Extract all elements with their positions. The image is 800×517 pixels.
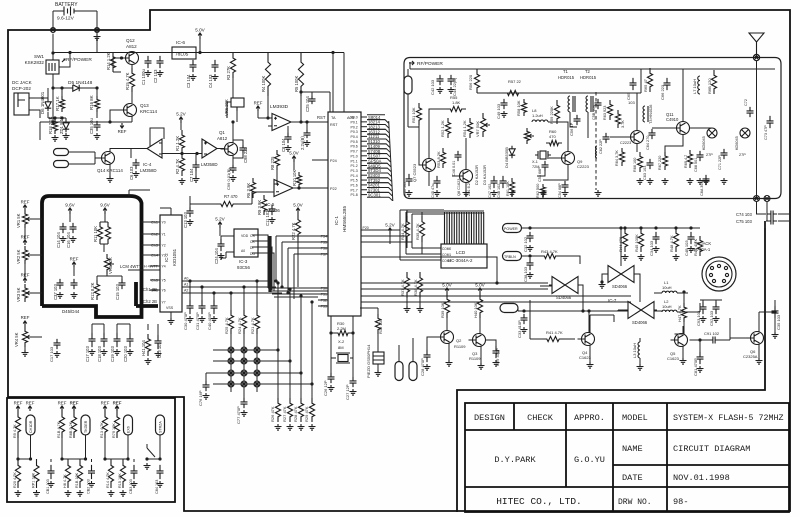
- aux component H8 4.7K: [65, 459, 70, 488]
- resistor R59 220K: [554, 100, 559, 124]
- svg-text:T3 HN4026: T3 HN4026: [649, 105, 653, 124]
- transistor Q14 KRC114: [102, 152, 115, 165]
- svg-text:D6 1N4001: D6 1N4001: [40, 91, 45, 114]
- rail corner to IC: [333, 53, 344, 113]
- bus IC-3 to IC-1 (thick bundle): [252, 235, 274, 291]
- aux group CH1DR bus wire: [18, 458, 31, 460]
- svg-text:P0.4: P0.4: [351, 135, 358, 139]
- opamp IC-4B LM358D (right-pointing): [202, 139, 217, 158]
- title block separation step: [457, 221, 765, 512]
- ground C42: [437, 87, 444, 93]
- svg-text:R20 4.7K: R20 4.7K: [13, 472, 17, 488]
- RF box bottom junction A: [754, 196, 760, 202]
- svg-text:KRC114: KRC114: [140, 109, 157, 114]
- potentiometer VR2 5K: [23, 240, 27, 245]
- keypad riser R28 47K: [300, 296, 302, 398]
- ref arrow VR6: [256, 106, 260, 111]
- svg-text:VR4 5K: VR4 5K: [14, 332, 19, 347]
- svg-text:C35 103: C35 103: [776, 314, 781, 330]
- capacitor C48 102: [500, 176, 507, 188]
- resistor H41 104: [145, 334, 150, 356]
- svg-text:C76 16P: C76 16P: [198, 390, 203, 406]
- svg-text:C4910: C4910: [666, 117, 679, 122]
- ground C38: [527, 272, 534, 278]
- resistor R58 10K: [521, 99, 526, 116]
- resistor R25 4.7K: [228, 310, 233, 334]
- thick wire Ch1-2B: [136, 282, 158, 306]
- antenna feed wire: [756, 61, 758, 199]
- ground C4B: [688, 246, 695, 252]
- svg-text:CH1DR: CH1DR: [29, 420, 33, 433]
- svg-text:T1: T1: [563, 69, 569, 74]
- ground mid: [71, 292, 78, 298]
- svg-text:LM358D: LM358D: [140, 168, 157, 173]
- svg-text:KSK2832: KSK2832: [25, 60, 45, 65]
- capacitor C99 0.01(B): [230, 165, 237, 173]
- potentiometer VR5 20K: [104, 254, 109, 274]
- analog switch SD4066 B: [608, 266, 634, 283]
- resistor R66 100: [637, 152, 642, 172]
- capacitor C27 12P: [350, 377, 357, 387]
- svg-text:C19 103: C19 103: [110, 345, 115, 362]
- svg-text:C98 223: C98 223: [243, 146, 248, 163]
- svg-text:C26 12P: C26 12P: [323, 380, 328, 396]
- 9.6V arrow in shield block A: [68, 208, 72, 214]
- capacitor C98 223: [240, 145, 247, 153]
- svg-text:KID1051: KID1051: [172, 248, 177, 266]
- svg-text:R24 4.7K: R24 4.7K: [237, 317, 242, 334]
- svg-text:EX6: EX6: [127, 426, 131, 433]
- capacitor C66 223: [664, 78, 671, 90]
- svg-text:R8B 5.2K: R8B 5.2K: [69, 421, 73, 438]
- RF second rail: [477, 92, 641, 94]
- junction connector J2: [95, 28, 100, 33]
- ground C37: [57, 292, 64, 298]
- ground C33: [521, 327, 528, 333]
- capacitor C42 103: [437, 75, 444, 85]
- capacitor C40 450P: [211, 300, 218, 314]
- svg-text:A0: A0: [241, 249, 245, 253]
- resistor R34 4.7K: [404, 216, 409, 242]
- svg-text:IC-5: IC-5: [266, 202, 275, 207]
- resistor R67 220: [662, 152, 667, 170]
- resistor R48 4.7K: [673, 228, 678, 252]
- capacitor C77 470P: [243, 392, 245, 399]
- svg-text:SD4066: SD4066: [612, 284, 628, 289]
- svg-text:P0.7: P0.7: [351, 150, 358, 154]
- svg-text:R41 4.7K: R41 4.7K: [546, 330, 563, 335]
- capacitor C92 103: [713, 302, 720, 314]
- svg-text:C33 410P: C33 410P: [517, 320, 522, 338]
- capacitor C64 270: [649, 129, 656, 139]
- potentiometer VR6 20K: [231, 98, 244, 107]
- svg-text:C30 470P: C30 470P: [183, 312, 188, 330]
- svg-text:R51 10K: R51 10K: [411, 107, 416, 123]
- svg-text:D4 BB535B: D4 BB535B: [504, 147, 509, 168]
- keypad junction: [241, 381, 247, 387]
- svg-text:C81 470P: C81 470P: [693, 358, 698, 376]
- RF box bottom junction B: [764, 196, 770, 202]
- LCD module HC-3044A-2: [441, 244, 487, 268]
- capacitor C49 103: [501, 99, 508, 109]
- IC-1 right pins to LCD COM: [361, 210, 412, 242]
- svg-text:A812: A812: [217, 136, 228, 141]
- keypad junction: [254, 358, 260, 364]
- svg-text:R37 4.7K: R37 4.7K: [400, 279, 405, 296]
- svg-text:5.2V: 5.2V: [385, 223, 395, 228]
- ground H41: [145, 358, 152, 364]
- svg-text:CIRCUIT DIAGRAM: CIRCUIT DIAGRAM: [673, 444, 750, 454]
- svg-text:R6B 120: R6B 120: [707, 78, 712, 94]
- svg-text:R4 100K: R4 100K: [261, 75, 266, 92]
- ground under R2: [179, 178, 186, 184]
- zener ZD1 5.1V: [63, 120, 69, 129]
- wire TRBLN right: [522, 255, 541, 257]
- resistor R16 8K: [94, 96, 99, 112]
- svg-text:R1109: R1109: [454, 344, 466, 349]
- svg-text:Y4: Y4: [162, 265, 166, 269]
- svg-text:98-: 98-: [673, 497, 688, 507]
- svg-text:Ch2 2B: Ch2 2B: [143, 299, 157, 304]
- svg-text:C1 100u: C1 100u: [141, 68, 146, 85]
- svg-text:DRW NO.: DRW NO.: [618, 498, 652, 507]
- svg-text:R13 4.7K: R13 4.7K: [100, 422, 104, 438]
- wire dc jack to diode: [34, 98, 48, 118]
- svg-text:SD4066: SD4066: [556, 295, 572, 300]
- inductor L3 10uH: [638, 342, 640, 358]
- svg-text:P1.0: P1.0: [351, 154, 358, 158]
- aux resistor R13 4.7K: [103, 406, 107, 411]
- svg-text:C25 104: C25 104: [305, 95, 310, 112]
- svg-text:C64 270: C64 270: [646, 136, 650, 150]
- svg-text:R66 100: R66 100: [633, 158, 637, 172]
- ground Q3: [478, 363, 485, 369]
- svg-text:R57 22: R57 22: [508, 79, 522, 84]
- IC-1 right long bus wires: [361, 257, 631, 302]
- svg-text:REF: REF: [70, 401, 79, 406]
- connector oval POWER: [503, 224, 522, 233]
- svg-text:C62 22P: C62 22P: [599, 139, 603, 154]
- shield block bottom step: [42, 300, 142, 317]
- svg-text:C2223: C2223: [577, 164, 590, 169]
- svg-text:C6 103: C6 103: [129, 166, 134, 180]
- ground under C4: [212, 74, 219, 80]
- ground C17: [89, 349, 96, 355]
- title block grid lines: [465, 403, 789, 512]
- svg-text:C2325A: C2325A: [743, 354, 758, 359]
- aux group EX6 bus wire: [105, 458, 128, 460]
- svg-text:P1.1: P1.1: [351, 159, 358, 163]
- capacitor C15 103: [119, 279, 126, 289]
- RF/POWER box outline: [404, 58, 781, 199]
- wire switch to main rail: [52, 74, 54, 122]
- trimmer KD6045 B: [740, 128, 750, 138]
- svg-text:BATTERY: BATTERY: [55, 2, 78, 8]
- ground C29: [493, 360, 500, 366]
- svg-text:TA: TA: [331, 116, 336, 120]
- capacitor C20 103: [127, 333, 134, 347]
- wire POWER to parts: [522, 227, 701, 229]
- svg-text:R64 3.7K: R64 3.7K: [615, 150, 619, 166]
- ground under C6: [133, 171, 140, 177]
- resistor R24 4.7K: [241, 310, 246, 334]
- capacitor C4B 103: [688, 232, 695, 244]
- svg-text:NAME: NAME: [622, 444, 643, 454]
- svg-text:R11 10K: R11 10K: [93, 226, 98, 242]
- aux connector oval EX6: [124, 415, 133, 435]
- potentiometer VR4 5K: [22, 327, 27, 347]
- svg-text:R14 1.2K: R14 1.2K: [106, 52, 111, 70]
- svg-text:R15 16K: R15 16K: [118, 473, 122, 488]
- ground under Q14: [107, 176, 114, 182]
- capacitor C41 102: [406, 174, 413, 186]
- svg-text:P37: P37: [321, 253, 327, 257]
- svg-text:1.2uH: 1.2uH: [532, 113, 543, 118]
- svg-text:5.0V: 5.0V: [293, 203, 303, 208]
- capacitor C28 470P: [424, 350, 431, 362]
- svg-text:5.0V: 5.0V: [475, 283, 485, 288]
- ground Q4: [587, 362, 594, 368]
- ground C76: [203, 393, 210, 399]
- ground C44: [448, 87, 455, 93]
- svg-text:IC-7: IC-7: [608, 298, 617, 303]
- svg-text:IC-3: IC-3: [239, 259, 248, 264]
- svg-text:A2: A2: [184, 289, 188, 293]
- svg-text:P0.0: P0.0: [351, 116, 358, 120]
- svg-text:9C301: 9C301: [368, 192, 381, 197]
- capacitor C33 410P: [521, 314, 528, 324]
- connector oval E (antenna in): [404, 76, 412, 94]
- svg-text:P1.5: P1.5: [351, 179, 358, 183]
- 5.2V arrow near IC-3: [218, 222, 222, 228]
- svg-text:C53 68P: C53 68P: [538, 167, 542, 182]
- svg-text:R79 10K: R79 10K: [112, 423, 116, 438]
- resistor R19 100: [375, 314, 380, 334]
- svg-text:LM393D: LM393D: [270, 104, 289, 110]
- svg-text:5.0V: 5.0V: [195, 28, 205, 33]
- svg-text:R15 4.7K: R15 4.7K: [125, 72, 130, 90]
- svg-text:R21 4.7K: R21 4.7K: [250, 317, 255, 334]
- ground C30: [187, 316, 194, 322]
- potentiometer VR3 5K: [23, 278, 27, 283]
- potentiometer VR8 B6K: [524, 128, 529, 144]
- IC-4A feedback loop: [131, 128, 164, 158]
- ground C20: [127, 349, 134, 355]
- svg-text:R67 220: R67 220: [658, 156, 662, 170]
- 9.6V arrow in shield block B: [103, 208, 107, 214]
- svg-text:CB1 103: CB1 103: [46, 479, 50, 494]
- svg-text:REF: REF: [26, 401, 35, 406]
- svg-text:5.2V: 5.2V: [215, 217, 225, 222]
- wires bus to IC-1 P34 group: [276, 236, 328, 299]
- antenna: [749, 33, 764, 58]
- ground VR4: [22, 350, 29, 356]
- svg-text:SW1: SW1: [34, 54, 44, 59]
- resistor R37 4.7K: [404, 272, 409, 298]
- svg-text:Q13: Q13: [140, 103, 149, 108]
- capacitor C5B 103: [595, 99, 602, 109]
- transistor Q4 C1623: [582, 333, 595, 346]
- transistor Q5 C1623: [675, 334, 688, 347]
- wires under IC-1: [331, 308, 378, 378]
- svg-text:P0.2: P0.2: [351, 125, 358, 129]
- svg-text:STRZA: STRZA: [159, 421, 163, 433]
- capacitor C91 102: [709, 337, 719, 344]
- svg-text:Y3: Y3: [162, 254, 166, 258]
- 5.0V supply arrow: [198, 33, 202, 39]
- ground at battery: [94, 34, 101, 40]
- keypad riser R27 47K: [289, 289, 291, 398]
- svg-text:9.6V: 9.6V: [65, 203, 75, 208]
- svg-text:R26 47K: R26 47K: [270, 406, 275, 422]
- svg-text:P35: P35: [321, 241, 327, 245]
- svg-text:5.2V: 5.2V: [176, 112, 186, 117]
- svg-text:REF: REF: [113, 401, 122, 406]
- keypad junction: [228, 370, 234, 376]
- svg-text:P0.6: P0.6: [351, 145, 358, 149]
- svg-text:LCD: LCD: [456, 250, 466, 255]
- svg-text:P1.2: P1.2: [351, 164, 358, 168]
- svg-text:T2: T2: [585, 69, 591, 74]
- IC IC-1 HMS65L2B5 (MCU): [328, 112, 361, 316]
- svg-text:RF/POWER: RF/POWER: [417, 61, 443, 67]
- ground C14: [60, 236, 67, 242]
- RF top rail: [410, 68, 775, 70]
- svg-text:KD6045: KD6045: [735, 136, 739, 150]
- wire to C74: [757, 202, 768, 222]
- svg-text:R1B 4.7K: R1B 4.7K: [57, 421, 61, 438]
- svg-text:IC-6: IC-6: [176, 40, 185, 46]
- aux group TKGER REF arrow: [72, 406, 76, 411]
- resistor R35 4.7K: [419, 216, 424, 242]
- svg-text:COM0: COM0: [442, 247, 451, 251]
- potentiometer VR7 50K: [480, 113, 485, 137]
- svg-text:103: 103: [628, 100, 635, 105]
- svg-text:RST: RST: [330, 123, 338, 127]
- svg-text:P0.1: P0.1: [351, 120, 358, 124]
- resistor R6B 120: [711, 70, 716, 94]
- resistor R6A 3.7K: [615, 110, 620, 128]
- potentiometer VR1 5K: [23, 205, 27, 210]
- svg-text:R43 4.7K: R43 4.7K: [541, 249, 558, 254]
- ground C26: [328, 385, 335, 391]
- aux resistor R1B 4.7K: [60, 406, 64, 411]
- svg-text:Y6: Y6: [162, 289, 166, 293]
- aux component R15 16K: [120, 459, 125, 488]
- keypad matrix grid: [213, 349, 278, 351]
- svg-text:Q7 C5523: Q7 C5523: [412, 163, 417, 182]
- connector oval P2: [54, 161, 69, 168]
- ground C35b: [772, 332, 779, 338]
- svg-text:C84 103: C84 103: [155, 480, 159, 494]
- transistor Q9 C2223: [562, 152, 575, 165]
- svg-text:VDD: VDD: [241, 234, 249, 238]
- svg-text:R22 4.7K: R22 4.7K: [291, 222, 296, 240]
- svg-text:C99 0.01(B): C99 0.01(B): [226, 168, 231, 190]
- svg-text:TRBLN: TRBLN: [504, 255, 516, 259]
- svg-text:C17 103: C17 103: [49, 346, 54, 362]
- keypad junction: [228, 347, 234, 353]
- capacitor C24 104: [218, 239, 225, 251]
- 5.2V supply arrow mid: [179, 117, 183, 123]
- aux component R1B 10K: [77, 459, 82, 488]
- svg-text:HMS65L2B5: HMS65L2B5: [342, 206, 347, 232]
- svg-text:R17 1K: R17 1K: [55, 96, 60, 111]
- transistor Q13 KRC114: [124, 104, 137, 117]
- resistor R56 220: [474, 69, 479, 93]
- ground piezo: [375, 370, 382, 376]
- ground C27: [350, 389, 357, 395]
- rf interconnect wires: [419, 69, 712, 196]
- capacitor C30 470P: [187, 300, 194, 314]
- svg-text:R10 10K: R10 10K: [292, 169, 297, 186]
- svg-text:P1.7: P1.7: [351, 188, 358, 192]
- capacitor C14 104: [60, 223, 67, 233]
- resistor R51 10K: [416, 103, 421, 125]
- capacitor C72 4P: [747, 107, 754, 117]
- svg-text:Y2: Y2: [162, 244, 166, 248]
- svg-text:R45 100K: R45 100K: [634, 234, 639, 252]
- svg-text:VR5 20K: VR5 20K: [108, 257, 113, 274]
- wire switch feed: [52, 34, 54, 60]
- svg-text:C68 501: C68 501: [694, 158, 698, 172]
- svg-text:A1: A1: [184, 283, 188, 287]
- svg-text:R18 2.2K: R18 2.2K: [48, 116, 53, 134]
- svg-text:P1.3: P1.3: [351, 169, 358, 173]
- svg-text:9.6-12V: 9.6-12V: [57, 16, 75, 22]
- svg-text:Y7: Y7: [162, 301, 166, 305]
- label RF/POWER: [409, 61, 414, 65]
- ground under C11: [269, 217, 276, 223]
- svg-text:REF: REF: [118, 129, 127, 134]
- title block outer frame: [465, 403, 789, 512]
- ground C92: [713, 316, 720, 322]
- capacitor C35 10u: [94, 121, 101, 131]
- svg-text:R38 4.7K: R38 4.7K: [413, 279, 418, 296]
- ground R44: [622, 254, 629, 260]
- svg-text:KD6045: KD6045: [702, 136, 706, 150]
- svg-text:REF: REF: [254, 101, 263, 106]
- svg-text:Y5: Y5: [162, 279, 166, 283]
- svg-text:REF: REF: [101, 401, 110, 406]
- resistor R12 8.2K: [94, 280, 99, 300]
- svg-text:93C56: 93C56: [237, 265, 250, 270]
- svg-text:C66 223: C66 223: [660, 84, 665, 100]
- 5.0V arrow R40: [478, 288, 482, 294]
- svg-text:REF: REF: [21, 200, 30, 205]
- svg-text:LCM 4WTT: LCM 4WTT: [120, 264, 142, 269]
- LCD connector comb: [444, 211, 484, 213]
- ground C31: [199, 316, 206, 322]
- svg-text:R69 4.7: R69 4.7: [684, 155, 688, 168]
- ground under C99: [230, 175, 237, 181]
- svg-text:C74 103: C74 103: [736, 212, 753, 217]
- svg-text:HITEC CO., LTD.: HITEC CO., LTD.: [496, 496, 582, 507]
- IC IC-3 93C56: [234, 229, 258, 257]
- svg-text:C65: C65: [626, 92, 631, 100]
- svg-text:R3 27K: R3 27K: [226, 66, 231, 80]
- aux group CH1DR REF arrow: [28, 406, 32, 411]
- ground R38: [417, 306, 424, 312]
- resistor R8 225: [274, 150, 279, 170]
- wire ovals to Q14: [69, 152, 102, 164]
- connector oval P1: [54, 149, 69, 156]
- svg-text:R6 3.9K: R6 3.9K: [246, 183, 251, 198]
- svg-text:R14 4.7K: R14 4.7K: [106, 472, 110, 488]
- svg-text:R35 4.7K: R35 4.7K: [415, 223, 420, 240]
- svg-text:RST: RST: [317, 115, 326, 120]
- wire C74/C75 to border: [765, 214, 790, 228]
